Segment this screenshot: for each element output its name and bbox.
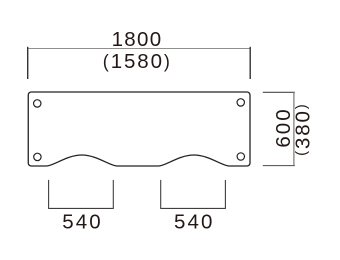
bottom bracket 1 left tick: [48, 180, 50, 209]
svg-text:540: 540: [62, 211, 103, 234]
top dimension line 1800: [27, 48, 250, 50]
top dimension left tick: [27, 47, 29, 79]
svg-text:(380): (380): [292, 102, 315, 155]
right dimension extension bottom: [263, 165, 295, 167]
right dimension vertical line: [293, 92, 295, 166]
svg-text:1800: 1800: [112, 28, 163, 51]
bottom bracket 2 right tick: [224, 180, 226, 209]
desk panel outline with two scallop cutouts: [28, 92, 250, 166]
hole bottom-right: [237, 153, 244, 160]
hole top-left: [34, 100, 41, 107]
bottom bracket 1 right tick: [112, 180, 114, 209]
bottom bracket 2 left tick: [160, 180, 162, 209]
right dimension extension top: [263, 91, 295, 93]
svg-text:(1580): (1580): [103, 50, 172, 73]
hole top-right: [237, 99, 244, 106]
top dimension right tick: [249, 47, 251, 79]
bottom bracket 1 line: [49, 207, 114, 209]
svg-text:540: 540: [174, 211, 215, 234]
bottom bracket 2 line: [161, 207, 226, 209]
hole bottom-left: [34, 153, 41, 160]
